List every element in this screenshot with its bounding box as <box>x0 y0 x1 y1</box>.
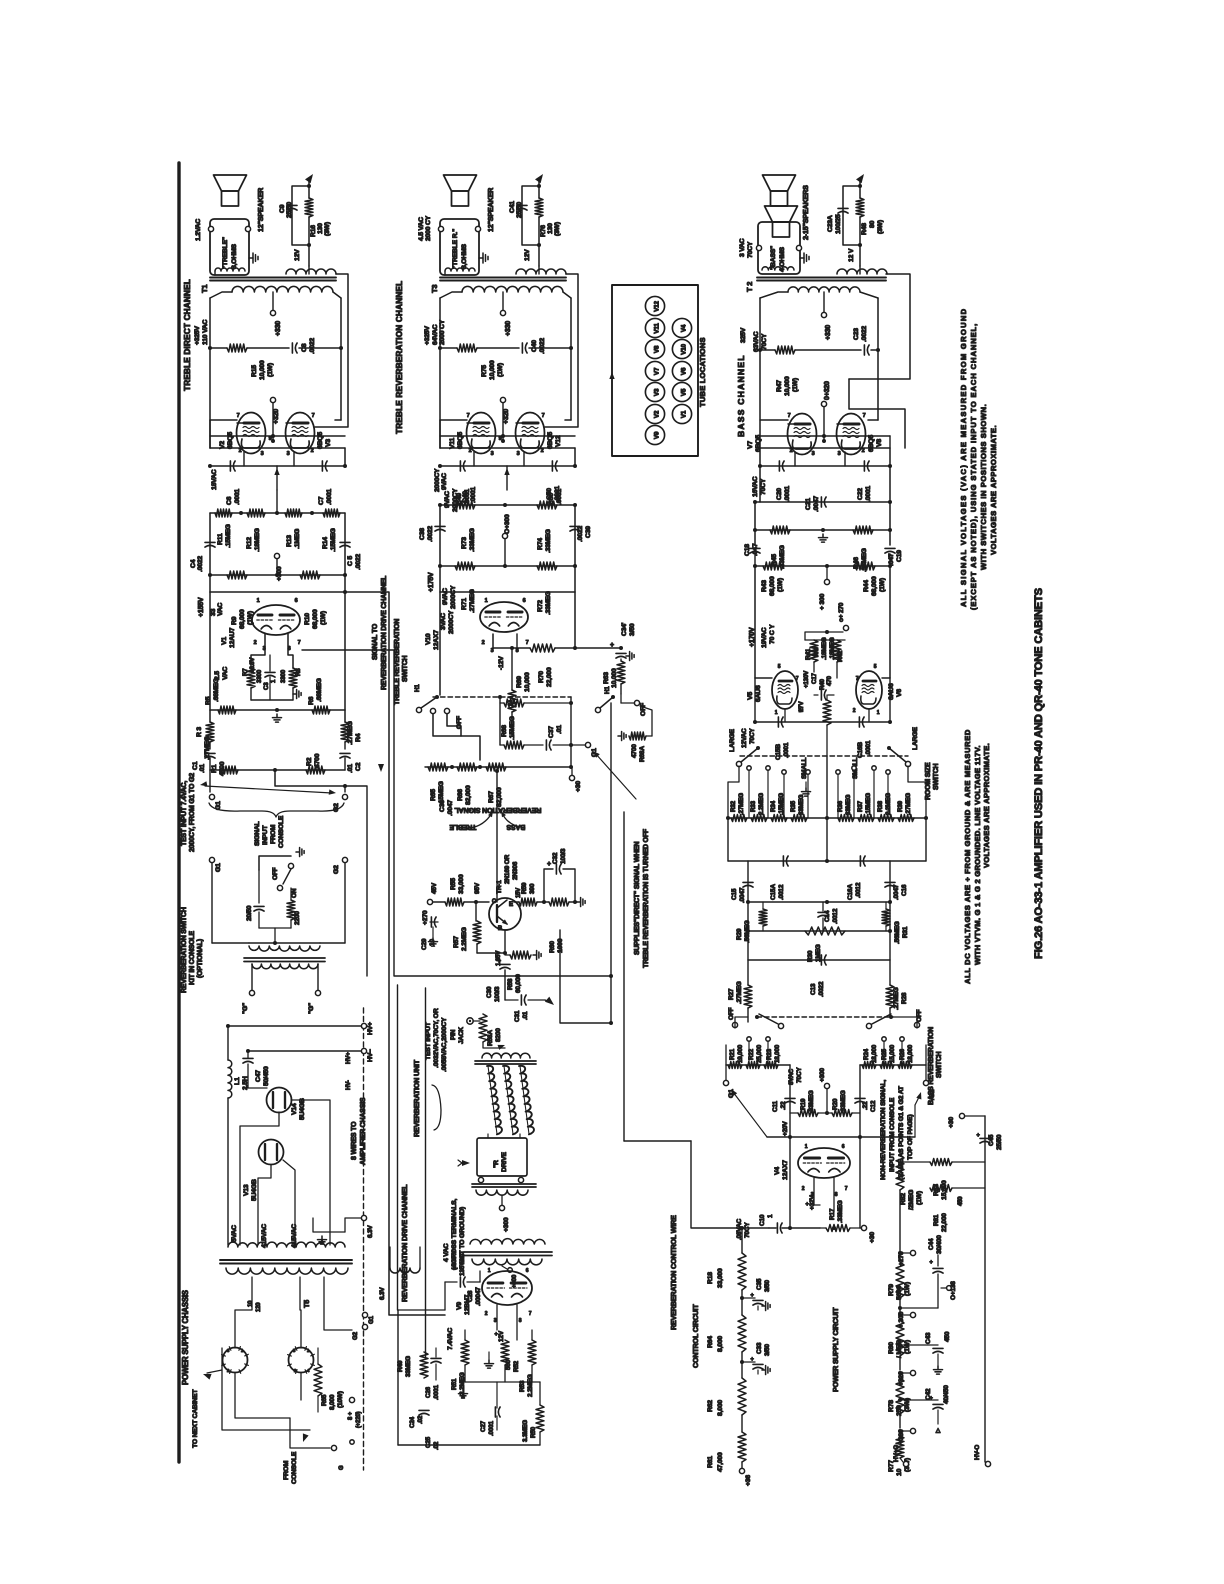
svg-text:5VAC: 5VAC <box>231 1225 238 1242</box>
wire <box>570 298 572 348</box>
svg-text:R31: R31 <box>902 926 909 938</box>
wire <box>805 632 843 640</box>
wire <box>440 591 575 593</box>
arrow output <box>305 174 313 183</box>
svg-text:.00047: .00047 <box>475 1287 482 1306</box>
svg-text:HV-O: HV-O <box>974 1445 981 1460</box>
svg-text:7: 7 <box>298 640 301 646</box>
svg-text:R2: R2 <box>306 757 313 766</box>
svg-text:.0012: .0012 <box>855 882 862 898</box>
feedback network <box>308 266 310 274</box>
wire <box>439 298 441 348</box>
svg-text:R69: R69 <box>516 676 523 688</box>
svg-text:25/50: 25/50 <box>996 1134 1003 1150</box>
tube V14 5U4GB <box>267 1088 292 1113</box>
svg-text:R7: R7 <box>242 668 249 676</box>
terminal contact <box>836 770 840 774</box>
svg-text:.27MEG: .27MEG <box>469 589 476 613</box>
wire <box>624 1140 691 1142</box>
wire <box>760 419 788 421</box>
svg-text:50/450: 50/450 <box>263 1066 270 1086</box>
terminal +36 <box>739 1468 744 1473</box>
capacitor C16 <box>885 881 895 883</box>
svg-text:.0022: .0022 <box>539 338 546 354</box>
cathode row <box>440 465 575 467</box>
svg-text:.0032VAC,70CY, OR: .0032VAC,70CY, OR <box>433 1008 440 1068</box>
svg-text:.15MEG: .15MEG <box>509 716 516 740</box>
svg-text:C32: C32 <box>552 852 559 864</box>
svg-text:6.3V: 6.3V <box>367 1225 374 1238</box>
resistor R68A <box>629 732 646 740</box>
wire <box>276 490 278 513</box>
resistor R80 <box>896 1320 904 1356</box>
svg-text:R28: R28 <box>901 992 908 1004</box>
svg-text:R13: R13 <box>286 535 293 547</box>
svg-text:R34: R34 <box>770 800 777 812</box>
svg-text:6BQ5: 6BQ5 <box>457 432 464 449</box>
switch lever <box>283 869 291 884</box>
svg-text:C33: C33 <box>756 1342 763 1354</box>
svg-text:1: 1 <box>488 1268 491 1274</box>
wire <box>767 1136 915 1138</box>
svg-text:V3: V3 <box>654 388 661 396</box>
wire <box>313 1218 345 1232</box>
svg-text:BASS: BASS <box>506 823 525 830</box>
core <box>475 1060 536 1062</box>
wire <box>900 1344 938 1346</box>
svg-text:R68: R68 <box>501 725 508 737</box>
svg-text:7: 7 <box>529 1311 532 1317</box>
left border line <box>177 163 180 1462</box>
svg-text:64VAC: 64VAC <box>432 324 439 345</box>
arrow from console <box>303 1433 309 1442</box>
B+ row R75 <box>440 347 457 349</box>
switch lever <box>741 748 758 762</box>
svg-text:SWITCH: SWITCH <box>936 1051 943 1078</box>
svg-text:70CY: 70CY <box>744 1222 751 1238</box>
terminal +270 <box>427 899 432 904</box>
svg-text:2: 2 <box>862 448 865 454</box>
wire <box>900 1161 930 1163</box>
svg-text:R51: R51 <box>451 1378 458 1390</box>
svg-text:"G": "G" <box>308 1003 315 1014</box>
wire <box>900 1399 938 1401</box>
svg-text:1.2VAC: 1.2VAC <box>195 219 202 241</box>
wire <box>235 1373 290 1418</box>
ground <box>618 735 622 737</box>
arrow bass curve <box>502 813 525 828</box>
svg-text:+330: +330 <box>505 321 512 336</box>
capacitor C13 <box>820 955 822 965</box>
svg-text:33MEG: 33MEG <box>405 1356 412 1377</box>
resistor R62 <box>738 1378 746 1415</box>
svg-text:(1W): (1W) <box>904 1282 911 1296</box>
wire contact <box>767 770 769 818</box>
wire mid row <box>440 435 575 437</box>
svg-text:LARGE: LARGE <box>729 729 736 752</box>
svg-text:T5: T5 <box>302 1300 311 1308</box>
coil secondary (speaker) <box>215 268 245 271</box>
svg-text:27V: 27V <box>798 701 805 712</box>
wire base <box>504 930 506 953</box>
svg-text:C1: C1 <box>192 761 199 770</box>
svg-text:SIGNAL: SIGNAL <box>254 821 261 846</box>
terminal G2 <box>362 1324 367 1329</box>
coil secondary feedback <box>837 269 887 274</box>
wire <box>291 1100 330 1245</box>
svg-text:C37: C37 <box>548 726 555 738</box>
wire plate V left <box>440 419 467 421</box>
wire <box>728 817 926 819</box>
svg-text:C27: C27 <box>480 1420 487 1432</box>
wire <box>877 298 879 350</box>
svg-text:C45: C45 <box>988 1134 995 1146</box>
svg-text:TREBLE: TREBLE <box>449 823 476 830</box>
capacitor C1 <box>205 752 215 754</box>
resistor R22 <box>746 1062 760 1069</box>
svg-text:R65: R65 <box>430 789 437 801</box>
terminal <box>416 707 421 712</box>
transformer T2 primary <box>788 287 860 292</box>
svg-text:6AU6: 6AU6 <box>755 685 762 702</box>
terminal <box>444 708 449 713</box>
svg-text:TR-1: TR-1 <box>496 880 503 894</box>
terminal HV- <box>361 1048 366 1053</box>
svg-text:.27MEG: .27MEG <box>893 987 900 1010</box>
capacitor C26 <box>431 1357 441 1359</box>
svg-text:135VAC: 135VAC <box>459 1253 466 1276</box>
svg-text:POWER SUPPLY CHASSIS: POWER SUPPLY CHASSIS <box>181 1290 190 1385</box>
svg-text:/ MEG: / MEG <box>896 1340 903 1358</box>
wire <box>728 766 739 818</box>
svg-text:7: 7 <box>526 640 529 646</box>
svg-text:2000CY: 2000CY <box>450 585 457 609</box>
arrow treble curve <box>470 813 492 828</box>
svg-text:6BQ5: 6BQ5 <box>755 435 762 452</box>
svg-text:V1: V1 <box>681 410 688 418</box>
resistor R19 <box>798 1110 818 1117</box>
svg-text:C3: C3 <box>263 682 270 690</box>
terminal pin jack <box>467 1018 473 1024</box>
svg-text:82,000: 82,000 <box>465 785 472 805</box>
svg-text:.22: .22 <box>862 1101 869 1110</box>
svg-text:.0022: .0022 <box>861 326 868 342</box>
capacitor C40 <box>521 343 523 353</box>
svg-text:T3: T3 <box>430 285 439 293</box>
wire reverb unit edge <box>425 988 427 1358</box>
svg-text:6BQ5: 6BQ5 <box>317 432 324 449</box>
svg-text:R63: R63 <box>603 672 610 684</box>
svg-text:R29: R29 <box>736 928 743 940</box>
svg-text:12"SPEAKER: 12"SPEAKER <box>256 187 265 232</box>
svg-text:33MEG: 33MEG <box>845 794 852 815</box>
svg-text:2200: 2200 <box>294 911 301 925</box>
wire contact <box>887 774 889 818</box>
svg-text:.0047: .0047 <box>739 887 746 903</box>
capacitor C11 <box>785 1097 795 1099</box>
resistor R1 <box>220 766 238 774</box>
svg-text:4.5 VAC: 4.5 VAC <box>418 217 425 241</box>
svg-text:INPUT FROM CONSOLE: INPUT FROM CONSOLE <box>889 1097 896 1172</box>
svg-text:10: 10 <box>896 1468 903 1476</box>
wire <box>433 714 480 760</box>
capacitor C21 <box>820 497 822 507</box>
wire <box>398 1309 445 1311</box>
svg-text:25/50: 25/50 <box>516 202 523 218</box>
svg-text:R62: R62 <box>707 1400 714 1412</box>
svg-text:"G": "G" <box>242 1003 249 1014</box>
wire <box>747 861 749 902</box>
svg-text:R4: R4 <box>355 733 362 742</box>
svg-text:70CY: 70CY <box>747 241 754 258</box>
capacitor C49 <box>459 461 461 471</box>
svg-text:(1W): (1W) <box>916 1191 923 1205</box>
resistor R24 <box>862 1062 876 1069</box>
resistor R15 <box>227 344 247 352</box>
switch lever <box>421 697 437 708</box>
capacitor C7 <box>321 461 323 471</box>
svg-text:+325V: +325V <box>424 325 431 345</box>
svg-text:C7: C7 <box>318 496 325 505</box>
svg-text:.27MEG: .27MEG <box>738 793 745 815</box>
svg-text:2: 2 <box>541 448 544 454</box>
resistor R68 <box>504 741 524 749</box>
capacitor C47 <box>243 1057 253 1059</box>
svg-text:TO NEXT CABINET: TO NEXT CABINET <box>192 1389 199 1448</box>
svg-text:2-15"SPEAKERS: 2-15"SPEAKERS <box>801 185 810 240</box>
wire screen <box>502 403 504 441</box>
svg-text:9VAC: 9VAC <box>442 588 449 605</box>
wire plate loop 2 <box>849 379 905 448</box>
svg-text:8: 8 <box>519 1318 522 1324</box>
svg-text:R26: R26 <box>899 1048 906 1060</box>
svg-text:R75: R75 <box>481 365 488 377</box>
wire <box>560 930 611 1023</box>
capacitor C30 <box>500 963 510 965</box>
wire <box>570 348 572 420</box>
svg-text:V11: V11 <box>449 437 456 449</box>
svg-text:R49: R49 <box>397 1360 404 1372</box>
svg-text:.047: .047 <box>888 553 895 566</box>
ground arrow <box>462 1390 464 1394</box>
resistor R83 <box>930 1159 952 1166</box>
svg-text:40/450: 40/450 <box>943 1385 950 1404</box>
wire <box>227 1098 229 1245</box>
svg-text:R44: R44 <box>863 580 870 592</box>
wire <box>859 1065 861 1137</box>
svg-text:18,000: 18,000 <box>871 1044 878 1063</box>
svg-text:+6.8V: +6.8V <box>249 657 256 673</box>
svg-text:+270: +270 <box>422 910 429 925</box>
svg-text:2.2MEG: 2.2MEG <box>758 793 765 815</box>
svg-text:.0001: .0001 <box>784 486 791 502</box>
svg-text:.15MEG: .15MEG <box>865 793 872 815</box>
tube locations box <box>612 285 698 456</box>
wire <box>726 1064 790 1066</box>
svg-text:C36: C36 <box>439 800 446 812</box>
svg-text:.68MEG: .68MEG <box>213 678 220 702</box>
svg-text:.0047: .0047 <box>893 884 900 900</box>
capacitor 20/50 <box>254 905 264 907</box>
terminal <box>478 1177 483 1182</box>
svg-text:2000CY: 2000CY <box>452 488 459 512</box>
svg-text:WITH VTVM. G 1 & G 2 GROUNDE: WITH VTVM. G 1 & G 2 GROUNDED. LINE VOLT… <box>973 745 982 965</box>
spring 3 <box>519 1066 534 1135</box>
svg-text:.0001: .0001 <box>488 1421 495 1436</box>
svg-text:V4: V4 <box>681 324 688 332</box>
svg-text:415VAC: 415VAC <box>261 1224 268 1248</box>
transformer T2 core <box>757 277 886 279</box>
wire <box>760 349 775 351</box>
svg-text:2.2MEG: 2.2MEG <box>527 1374 534 1397</box>
wire <box>248 1076 267 1088</box>
svg-text:-12V: -12V <box>498 656 505 670</box>
svg-text:3: 3 <box>517 451 520 457</box>
svg-text:V4: V4 <box>774 1167 781 1175</box>
svg-text:VAC: VAC <box>222 666 229 680</box>
svg-text:(1W): (1W) <box>267 363 274 377</box>
wire test-input pointer <box>205 786 332 793</box>
tube location V10 <box>672 339 691 358</box>
svg-text:V8: V8 <box>876 439 883 447</box>
coil secondary (speaker) <box>445 268 475 271</box>
wire screen <box>823 407 825 441</box>
tube V6 6AU6 <box>856 671 882 709</box>
terminal contact <box>766 766 770 770</box>
svg-text:3: 3 <box>494 1318 497 1324</box>
svg-text:.0022: .0022 <box>197 556 204 572</box>
svg-text:V10: V10 <box>425 633 432 645</box>
svg-text:OFF: OFF <box>728 1007 735 1020</box>
capacitor C9 <box>287 204 297 206</box>
wire control <box>610 703 612 1023</box>
svg-text:R41: R41 <box>805 648 812 660</box>
svg-text:R50: R50 <box>530 1426 537 1438</box>
terminal contact <box>872 766 876 770</box>
terminal +300 <box>824 579 829 584</box>
svg-text:2000CY, FROM G1 TO G2: 2000CY, FROM G1 TO G2 <box>189 773 196 852</box>
svg-text:O+300: O+300 <box>504 514 511 534</box>
svg-text:C39: C39 <box>585 526 592 538</box>
terminal +270 <box>843 625 848 630</box>
tube location V1 <box>672 404 691 423</box>
capacitor C12 <box>855 1097 865 1099</box>
svg-text:V5: V5 <box>747 692 754 700</box>
capacitor C34 <box>616 652 626 654</box>
svg-text:(3W): (3W) <box>554 222 561 236</box>
arrow to next cabinet <box>203 1374 212 1380</box>
svg-text:.33MEG: .33MEG <box>837 1200 844 1223</box>
svg-text:C15B: C15B <box>775 744 782 760</box>
terminal contact <box>782 770 786 774</box>
spring 1 <box>487 1066 502 1135</box>
svg-text:8,OHMS: 8,OHMS <box>231 243 238 269</box>
svg-text:4700: 4700 <box>314 753 321 768</box>
svg-text:.0001: .0001 <box>470 487 477 503</box>
svg-text:100/3: 100/3 <box>560 848 567 864</box>
svg-text:R18: R18 <box>707 1272 714 1284</box>
svg-text:ON: ON <box>291 888 298 898</box>
svg-text:415VAC: 415VAC <box>291 1224 298 1248</box>
wire <box>274 928 276 943</box>
svg-text:18VAC: 18VAC <box>211 469 218 490</box>
svg-text:V5: V5 <box>681 388 688 396</box>
svg-text:ALL SIGNAL VOLTAGES (VAC) AR: ALL SIGNAL VOLTAGES (VAC) ARE MEASURED F… <box>959 308 968 607</box>
wire <box>889 960 891 985</box>
svg-text:(1W): (1W) <box>320 611 327 625</box>
terminal <box>796 245 801 250</box>
terminal OFF <box>634 700 639 705</box>
resistor R13 <box>285 509 302 517</box>
capacitor C2 <box>340 752 350 754</box>
resistor R73 <box>455 501 475 509</box>
svg-text:7: 7 <box>788 413 791 419</box>
V1 cathode network R7 C3 R8 <box>251 634 265 668</box>
svg-text:V12: V12 <box>555 435 562 447</box>
svg-text:4700: 4700 <box>631 744 638 758</box>
ground <box>276 714 278 718</box>
wire grid row <box>440 447 575 449</box>
svg-text:SIGNAL TO: SIGNAL TO <box>372 623 379 660</box>
svg-text:R61: R61 <box>707 1456 714 1468</box>
terminal +30 <box>569 775 574 780</box>
terminal <box>245 226 250 231</box>
resistor R77 <box>896 1436 904 1458</box>
svg-text:33,000: 33,000 <box>458 874 465 894</box>
svg-text:C44: C44 <box>928 1238 935 1250</box>
svg-text:R5: R5 <box>205 696 212 705</box>
resistor R17 zig <box>826 1225 850 1232</box>
dashed switch linkage <box>757 1016 893 1018</box>
wire <box>340 348 342 420</box>
ground <box>937 1366 939 1370</box>
wire <box>496 1305 498 1330</box>
resistor R76 <box>535 198 543 217</box>
ground <box>800 257 804 259</box>
svg-text:10,000: 10,000 <box>489 360 496 380</box>
svg-text:REVERBERATION UNIT: REVERBERATION UNIT <box>412 1059 421 1137</box>
wire cathode row <box>760 465 890 467</box>
resistor R71 <box>455 562 475 570</box>
terminal G1 <box>723 1080 728 1085</box>
svg-text:6BQ5: 6BQ5 <box>227 432 234 449</box>
svg-text:8: 8 <box>516 648 519 654</box>
svg-text:33MEG: 33MEG <box>798 794 805 815</box>
wire grid row <box>210 447 345 449</box>
svg-text:.01: .01 <box>347 764 354 773</box>
terminal 6.3V <box>361 1215 366 1220</box>
wire <box>259 927 291 929</box>
capacitor C33 <box>753 1363 763 1365</box>
coil pickup <box>482 1053 530 1058</box>
svg-text:R20: R20 <box>832 1098 839 1110</box>
svg-text:R11: R11 <box>217 533 224 545</box>
capacitor C5 <box>340 541 350 543</box>
svg-text:8,OHMS: 8,OHMS <box>461 243 468 269</box>
tube location V11 <box>645 318 664 337</box>
svg-text:.27MEG: .27MEG <box>347 721 354 745</box>
wire screen <box>272 403 274 441</box>
svg-text:OFF: OFF <box>456 716 463 729</box>
svg-text:7.4VAC: 7.4VAC <box>447 1328 454 1350</box>
svg-text:.0001: .0001 <box>433 1385 440 1400</box>
resistor R42 <box>833 640 841 662</box>
wire mid row <box>760 435 890 437</box>
capacitor C8 <box>291 343 293 353</box>
capacitor C42 <box>933 1403 943 1405</box>
wire <box>209 348 211 448</box>
tube location V6 <box>672 361 691 380</box>
